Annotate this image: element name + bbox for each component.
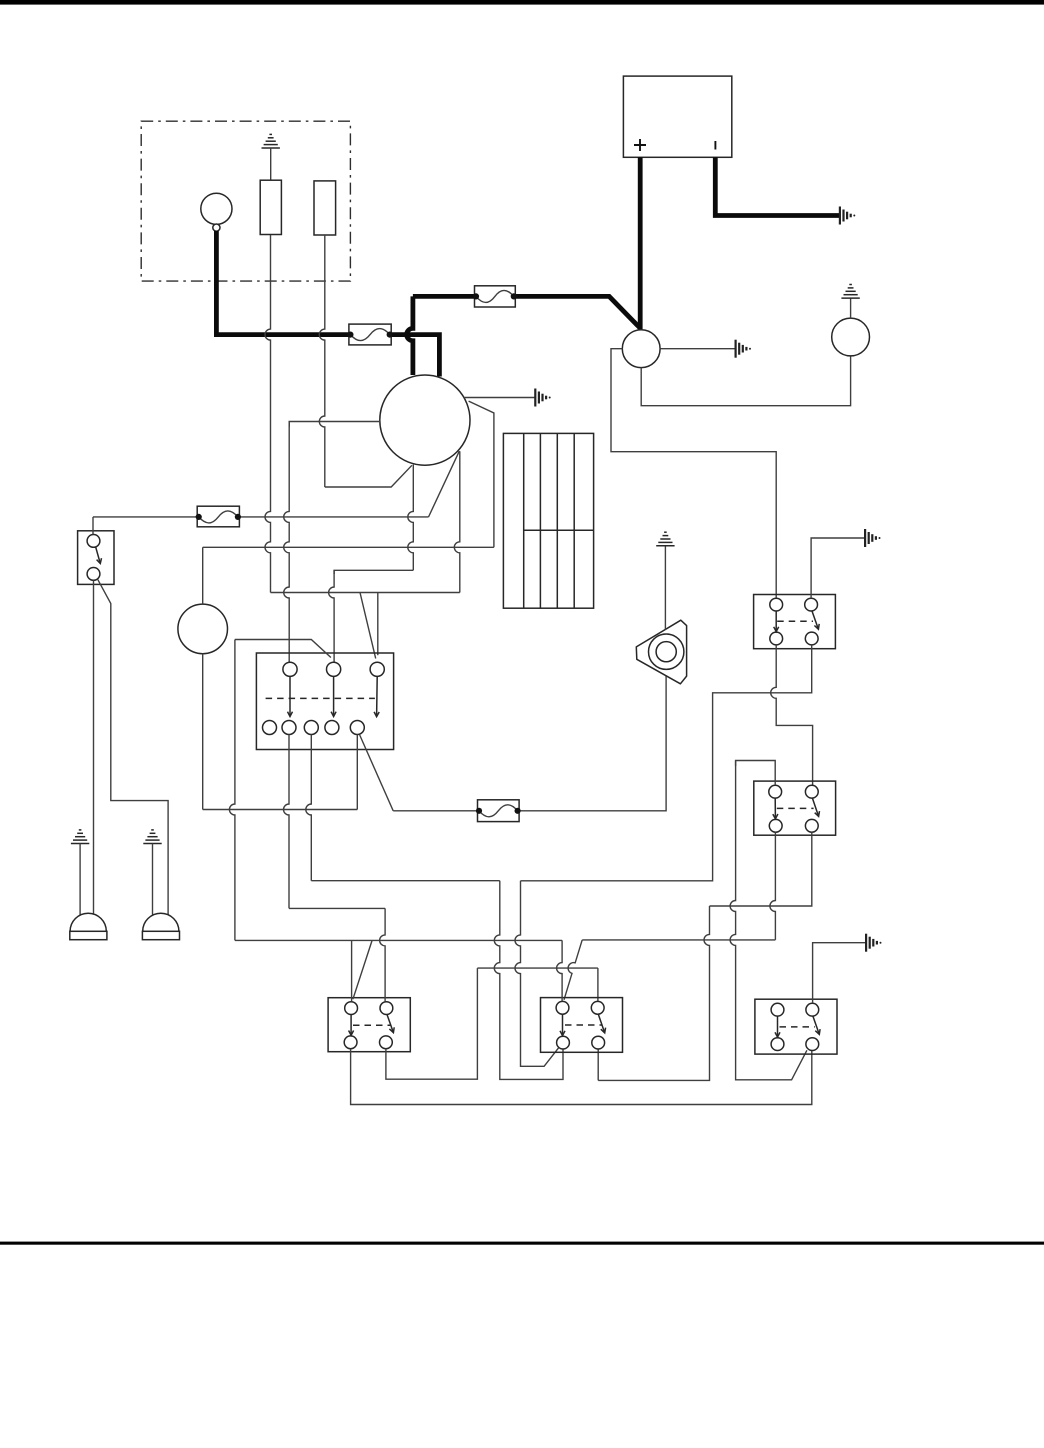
connector block (engine harness) [503,433,593,608]
ground G5 (alternator) [534,389,536,407]
wire hour meter to ground [850,298,852,318]
ground G3 (solenoid) [734,340,736,358]
ground G2 (battery negative) [839,207,841,225]
module arrow 2 [333,676,335,716]
wire alternator BR edge drop [454,451,460,592]
dash-dot enclosure (instrument panel) [141,121,350,281]
wire module run y908 [289,907,385,909]
ground G9 (headlight1) [71,843,89,845]
wire R1 drop [265,235,271,593]
headlight1 ground stem [79,844,81,915]
light switch pins [87,535,100,548]
wire gauge top stem [202,547,204,604]
module arrow 3 [376,676,379,716]
resistor R2 [314,181,336,235]
light switch box [78,531,114,585]
wire K2 BL diagonal [564,940,582,1000]
wire pin3 diagonal [360,593,376,659]
starter solenoid circle [622,330,660,368]
ground G6 (horn) [656,545,674,547]
wire module pin-b2 drop [284,735,290,909]
wire K2 coil feed [736,761,776,786]
fuel gauge circle [178,604,228,654]
wire brake BL to bottom run [351,1049,812,1105]
wire alternator to resistor R2 [325,465,412,487]
wire module pin-b5 to gauge run [356,735,358,810]
wire pin2 vertical [329,570,335,662]
ground G10 (headlight2) [143,843,161,845]
headlight 2 [143,913,179,931]
wire pin2 feed from left [235,640,331,658]
wire accessory drop x234.9 [229,640,235,941]
wire alternator AC tap to gauge feed [469,401,494,547]
relay K1 [754,595,836,649]
wire brake TR riser [380,908,385,1001]
wire accessory run y940 [235,939,562,941]
wire module pin-b3 drop [306,735,312,881]
wire K1 out to K2 coil [771,645,813,786]
wire light switch to headlight1 [93,580,95,915]
ground G4 (hour meter) [841,297,859,299]
cable lamp to alternator [216,231,439,377]
wire brake TL diagonal [353,940,372,999]
module arrow 1 [289,676,291,716]
indicator lamp L1 [201,193,232,224]
wire pin3 vertical [377,593,379,656]
fuse F2 (charge) [349,324,391,345]
wire interlock drop x520.5 [515,881,559,1067]
wire alternator left terminal [289,422,380,428]
ground G8 (clutch) [865,934,867,952]
wire middle BR riser [597,1049,599,1080]
wire light switch to headlight2 [98,580,168,917]
clutch switch box [755,999,837,1054]
wire module pin-b5 diagonal to horn run [360,735,394,811]
hour meter circle [832,318,870,356]
ground G7 (relay K1) [864,529,866,547]
bottom rule [0,1242,1044,1245]
wire R2 drop [319,235,324,487]
wire K2 BR drop x709.5 [598,906,709,1080]
wire brake TL vertical [351,940,353,1001]
battery + label [634,139,646,151]
top border bar [0,0,1044,5]
wire solenoid bottom to hour meter [641,356,850,406]
brake switch box [328,998,410,1052]
wire K2 BL run to PTO switch [582,939,775,941]
wire alternator BR diagonal to key-fuse run [429,451,460,517]
module bottom pins [263,721,277,735]
wire solenoid left to relay K1 [611,349,776,599]
wire bottom drop to module pin2 [334,570,413,574]
wire G1 to R1 [270,148,272,180]
wire alternator to ground [464,397,536,399]
battery B1 [623,76,731,157]
light switch arrow [96,547,101,563]
ignition switch module box [256,653,393,750]
fuse F3 (lights) [197,506,239,527]
wire middle TR riser [597,968,599,1001]
headlight2 ground stem [152,844,154,915]
cable F1-drop to alternator [407,296,413,375]
wire middle TL riser [557,940,563,1001]
module top pins [283,662,297,676]
PTO switch box [541,998,623,1053]
wire alt-left drop to module pin1 [284,422,290,663]
wire gauge bottom stem [202,654,204,810]
relay K2 [754,781,836,835]
wire y968 run [477,967,598,969]
wire solenoid to ground [660,348,735,350]
resistor R1 [260,180,281,234]
cable battery+ to solenoid [638,157,643,331]
headlight 1 [70,913,106,931]
wire horn to ground [664,546,666,630]
battery - label [714,141,716,150]
wire K2-coil drop x735.6 [730,761,807,1080]
wire module run y880 [311,880,500,882]
wire K1 NC to interlock [521,645,812,881]
module dashed line [266,697,375,699]
wire pin3 drop x499.8 [494,881,563,1080]
wire K2 BR drop [710,832,812,906]
cable run upper fuse to solenoid [413,296,641,328]
fuse F1 (main) [475,286,516,307]
wire key-fuse run [93,516,429,518]
wire y592 run to module pin3 [271,592,460,594]
wire horn run [393,675,666,811]
wire clutch TR to ground [813,943,867,1004]
wire gauge-top run [203,546,494,548]
wire alternator bottom drop [408,465,414,571]
wire K2 BL drop [770,832,776,940]
alternator circle [380,375,470,465]
wire brake BR to PTO TR [386,968,478,1079]
ground G1 (panel) [262,147,280,149]
wire K1 coil to ground [811,538,865,598]
wire gauge-bottom run to pin5 [203,809,358,811]
fuse F4 (horn) [478,800,520,822]
horn [636,620,686,684]
cable battery- to ground [715,157,839,215]
wire fuse to light switch [92,517,94,535]
